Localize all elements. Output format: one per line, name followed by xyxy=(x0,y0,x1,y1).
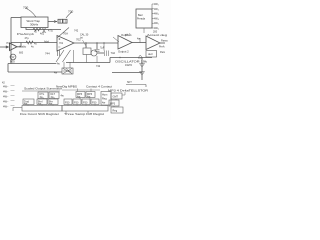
svg-text:4W₃: 4W₃ xyxy=(154,13,159,16)
svg-text:4W–: 4W– xyxy=(3,105,9,109)
wire xyxy=(103,43,105,51)
wire from box down xyxy=(143,28,145,33)
node label 100 leader xyxy=(25,8,36,17)
svg-text:Reg: Reg xyxy=(113,110,118,113)
resistor R1 xyxy=(33,28,41,31)
svg-text:700: 700 xyxy=(23,6,28,10)
register box A3 xyxy=(23,99,34,105)
resistor R2 box xyxy=(83,48,91,55)
svg-text:19kHz: 19kHz xyxy=(125,64,133,67)
wire left bus xyxy=(10,18,12,64)
stub wires xyxy=(152,4,154,28)
register box A4 xyxy=(37,99,47,105)
svg-text:4.7µ: 4.7µ xyxy=(48,30,53,33)
svg-text:4w: 4w xyxy=(87,95,90,98)
svg-text:42: 42 xyxy=(34,31,37,34)
junction xyxy=(103,42,104,43)
svg-text:Adel: Adel xyxy=(44,41,49,44)
register box B1 xyxy=(76,92,85,98)
svg-text:70A: 70A xyxy=(63,32,68,36)
svg-text:4w: 4w xyxy=(137,38,140,41)
svg-text:wh 2: wh 2 xyxy=(125,34,131,37)
svg-text:701: 701 xyxy=(59,42,64,45)
oscillator junction dot xyxy=(119,57,120,58)
svg-text:Three Samp Diff Regist: Three Samp Diff Regist xyxy=(64,113,104,116)
resistor R3 xyxy=(26,41,33,44)
wire xyxy=(11,17,21,19)
svg-text:P30: P30 xyxy=(65,102,70,105)
register box B5 xyxy=(82,99,90,105)
shift register box xyxy=(22,106,62,112)
svg-text:4w: 4w xyxy=(49,103,52,106)
svg-text:Audio: Audio xyxy=(19,45,27,49)
svg-text:Contact 4 Contact: Contact 4 Contact xyxy=(86,86,112,89)
register box B2 xyxy=(86,92,95,98)
svg-text:4W–: 4W– xyxy=(3,89,9,93)
svg-text:4w: 4w xyxy=(38,103,41,106)
svg-text:47µ: 47µ xyxy=(25,37,30,40)
svg-text:4W–: 4W– xyxy=(3,94,9,98)
wire corner xyxy=(13,108,22,112)
capacitor C4 xyxy=(105,51,109,57)
wire xyxy=(66,58,152,63)
svg-text:900: 900 xyxy=(10,60,15,64)
register box B4 xyxy=(73,99,81,105)
box: word trap filter xyxy=(21,17,48,28)
wire bus xyxy=(22,90,60,92)
register box B7 xyxy=(101,92,111,106)
svg-text:30kHz: 30kHz xyxy=(30,23,39,27)
svg-text:4W₄: 4W₄ xyxy=(154,17,159,20)
box MMV xyxy=(146,51,157,58)
register box B3 xyxy=(64,99,72,105)
capacitor C1 xyxy=(42,28,46,33)
svg-text:PreAmp1: PreAmp1 xyxy=(17,32,35,36)
diode D2 xyxy=(140,72,145,76)
svg-text:4W–: 4W– xyxy=(3,84,9,88)
register box A1 xyxy=(38,92,48,99)
svg-text:SFT: SFT xyxy=(127,81,132,84)
wire xyxy=(17,43,21,47)
op-amp U4 xyxy=(146,36,160,50)
wire xyxy=(48,21,57,23)
svg-text:4W₅: 4W₅ xyxy=(154,22,159,25)
svg-text:4u2: 4u2 xyxy=(40,33,45,36)
bottom-left cluster wires xyxy=(11,86,15,106)
op-amp U1 xyxy=(10,43,18,51)
svg-text:MP3 4 DeltaTELLSTOR: MP3 4 DeltaTELLSTOR xyxy=(108,90,148,93)
svg-text:Output 2: Output 2 xyxy=(118,50,129,54)
node label 102 leader xyxy=(66,12,72,18)
wire xyxy=(58,28,70,38)
transistor Q2 circle xyxy=(91,50,97,56)
svg-text:4u: 4u xyxy=(34,43,37,46)
svg-text:600: 600 xyxy=(19,52,24,55)
svg-text:P30: P30 xyxy=(74,102,79,105)
wire xyxy=(74,42,118,44)
svg-text:4w: 4w xyxy=(24,103,27,106)
capacitor C3 xyxy=(95,50,100,52)
label leader xyxy=(113,37,119,42)
crystal box xyxy=(62,68,73,74)
register box C2 xyxy=(109,100,119,106)
transistor Q1 xyxy=(10,54,16,60)
wire main input xyxy=(11,42,57,44)
svg-text:Pre1: Pre1 xyxy=(7,42,13,45)
svg-text:4w: 4w xyxy=(54,72,57,75)
connector J1 xyxy=(58,19,63,23)
svg-text:Preada: Preada xyxy=(137,18,146,21)
svg-text:Five Count Shift Register: Five Count Shift Register xyxy=(20,113,59,116)
svg-text:Pam: Pam xyxy=(160,51,165,54)
diode D1 xyxy=(140,64,145,68)
wire xyxy=(112,72,142,74)
wire xyxy=(97,52,104,54)
junction tick xyxy=(139,38,141,43)
wire xyxy=(160,42,165,44)
svg-text:Accent deg: Accent deg xyxy=(147,33,168,37)
svg-text:744: 744 xyxy=(45,52,50,56)
svg-text:MP3: MP3 xyxy=(110,103,116,106)
op-amp U3 xyxy=(118,36,132,50)
svg-text:Pama: Pama xyxy=(161,40,168,43)
ref line xyxy=(126,85,146,88)
svg-text:4W₁: 4W₁ xyxy=(154,3,159,6)
svg-text:4w: 4w xyxy=(61,95,64,98)
transistor Q3 xyxy=(56,50,71,62)
svg-text:PreA: PreA xyxy=(159,46,165,49)
wire xyxy=(85,43,87,48)
left pin column xyxy=(3,84,9,108)
svg-text:P30: P30 xyxy=(83,102,88,105)
junction xyxy=(96,42,97,43)
wires xyxy=(114,92,125,107)
svg-text:Hum: Hum xyxy=(102,94,107,97)
wire xyxy=(96,43,98,49)
wire xyxy=(132,42,146,44)
shift register box 2 xyxy=(62,106,108,112)
box: decoder top right xyxy=(136,9,152,28)
svg-text:4W–: 4W– xyxy=(3,99,9,103)
wire xyxy=(26,28,61,30)
svg-text:decl: decl xyxy=(148,53,153,56)
register box A5 xyxy=(48,99,58,105)
register box C3 xyxy=(111,107,123,113)
svg-text:4w: 4w xyxy=(77,95,80,98)
junction arrow xyxy=(138,55,143,58)
svg-text:7µF: 7µF xyxy=(100,47,105,50)
wires xyxy=(28,99,54,106)
svg-text:742: 742 xyxy=(111,51,116,55)
svg-text:Int: Int xyxy=(80,37,83,40)
svg-text:OSCILLATOR 19k: OSCILLATOR 19k xyxy=(115,60,148,64)
svg-text:742: 742 xyxy=(74,30,79,33)
bottom-center cluster xyxy=(62,89,100,91)
svg-text:4W₂: 4W₂ xyxy=(154,8,159,11)
svg-text:GMT: GMT xyxy=(113,96,119,99)
input arrow xyxy=(0,46,8,48)
wires xyxy=(66,89,106,114)
svg-text:200: 200 xyxy=(153,31,158,34)
svg-text:42: 42 xyxy=(2,82,5,85)
feedback wire xyxy=(8,63,56,65)
svg-text:4w: 4w xyxy=(102,102,105,105)
wire vertical divider chain xyxy=(141,58,143,81)
op-amp U2 xyxy=(57,36,74,52)
svg-text:742: 742 xyxy=(96,65,101,68)
svg-text:Reg: Reg xyxy=(102,98,107,101)
register box B6 xyxy=(91,99,99,105)
svg-text:4w₂: 4w₂ xyxy=(51,96,55,99)
svg-text:P30: P30 xyxy=(92,102,97,105)
svg-text:4w: 4w xyxy=(57,63,60,66)
svg-text:NewDig MPBS: NewDig MPBS xyxy=(56,86,77,89)
svg-text:700: 700 xyxy=(68,10,73,14)
capacitor C2 xyxy=(58,50,60,56)
feedback wire xyxy=(8,64,62,73)
svg-text:4u: 4u xyxy=(31,46,34,49)
junction xyxy=(96,56,98,63)
svg-text:4w₁: 4w₁ xyxy=(40,96,44,99)
junction xyxy=(85,42,86,43)
arrowhead xyxy=(54,20,57,22)
register box C1 xyxy=(111,93,122,99)
register box A2 xyxy=(49,92,59,99)
